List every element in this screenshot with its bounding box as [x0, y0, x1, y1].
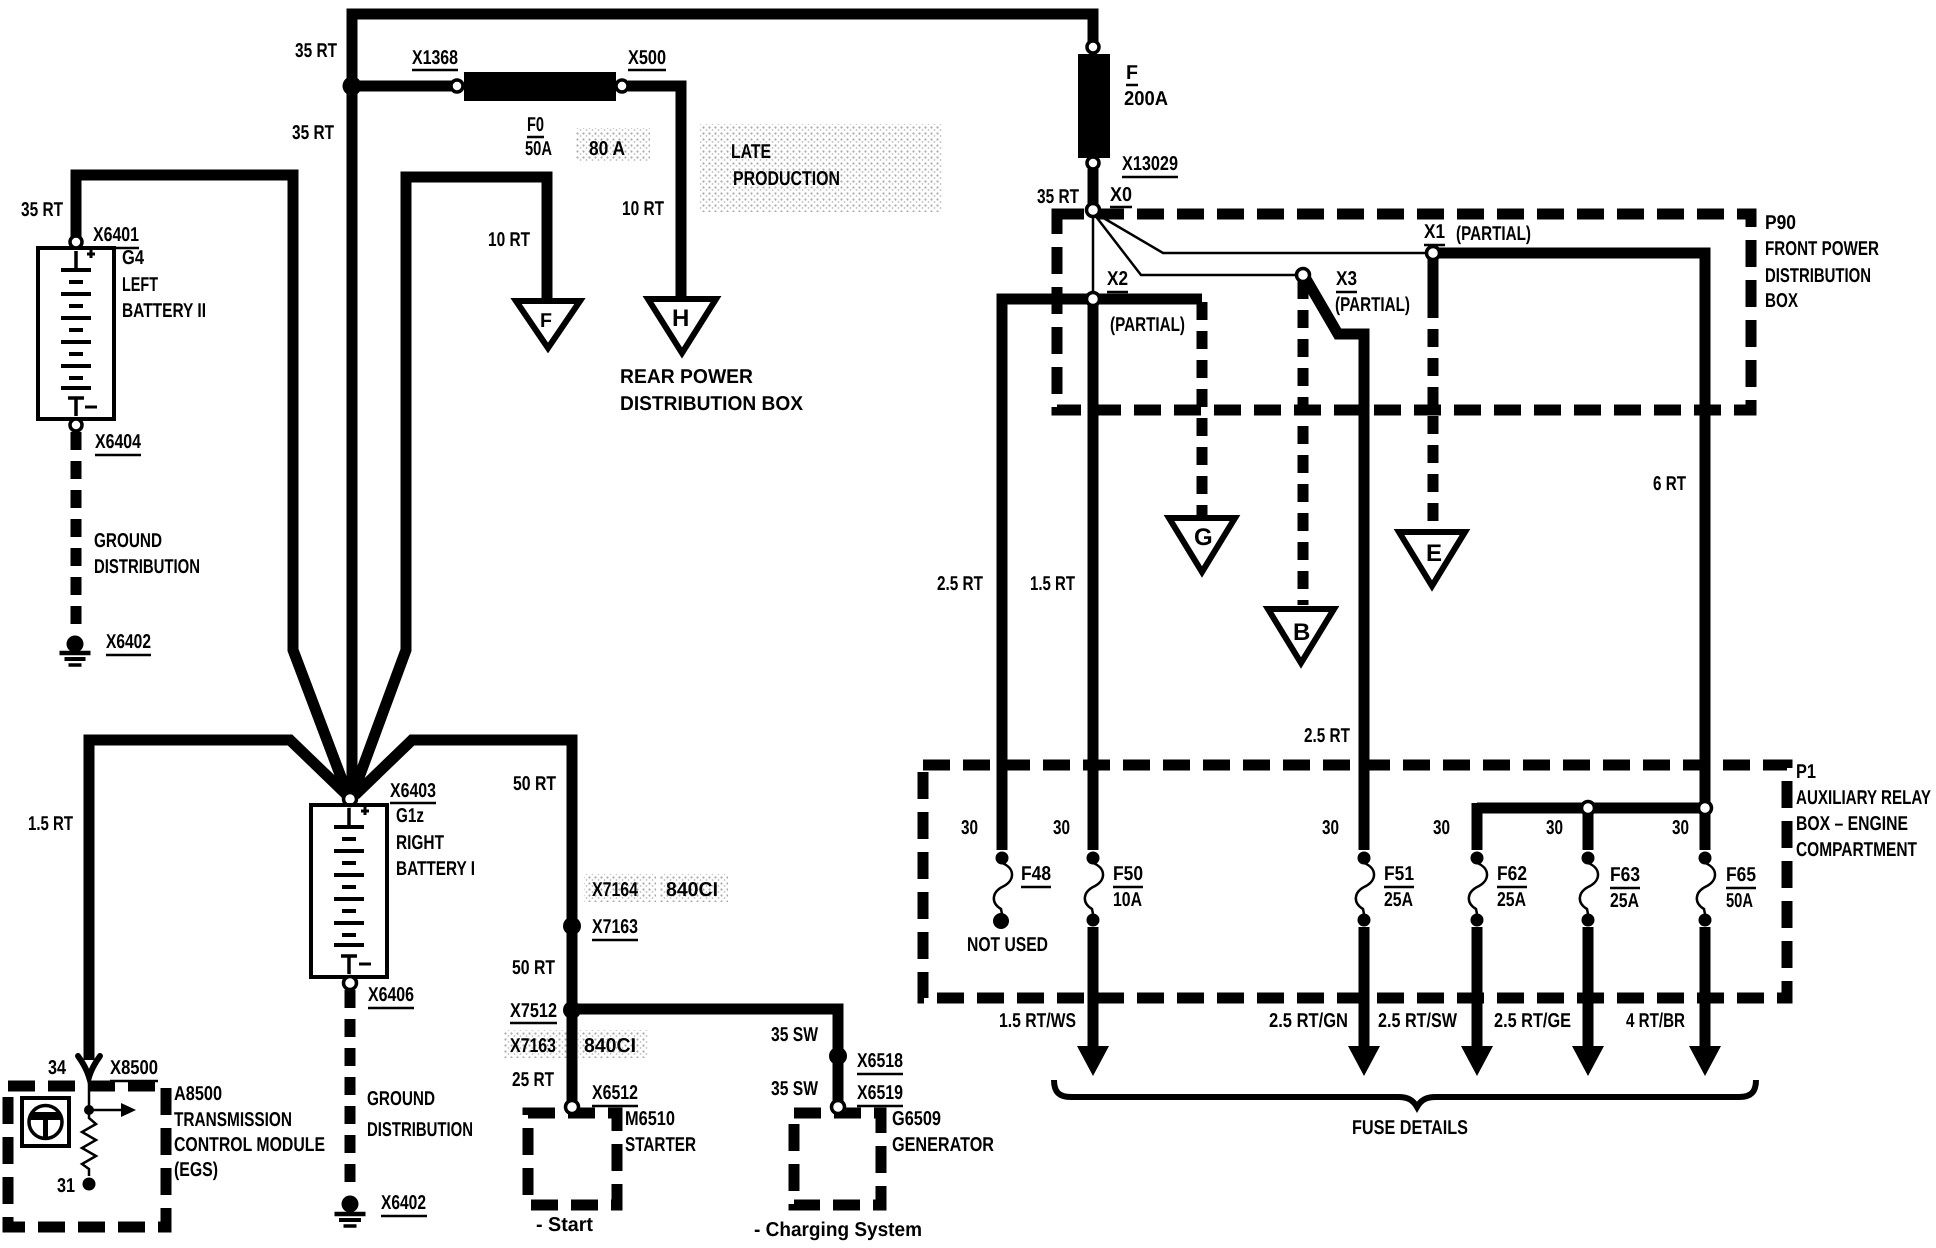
label X0	[1110, 184, 1132, 207]
svg-text:6 RT: 6 RT	[1653, 473, 1686, 495]
svg-text:(PARTIAL): (PARTIAL)	[1456, 223, 1531, 245]
svg-text:2.5 RT/GE: 2.5 RT/GE	[1494, 1010, 1571, 1032]
svg-text:A8500: A8500	[174, 1083, 222, 1105]
svg-text:25A: 25A	[1610, 890, 1639, 912]
svg-text:TRANSMISSION: TRANSMISSION	[174, 1109, 292, 1131]
svg-text:LATE: LATE	[731, 141, 771, 163]
junction dot X6518	[829, 1047, 847, 1065]
svg-text:P90: P90	[1765, 212, 1796, 234]
svg-text:F0: F0	[527, 114, 544, 136]
svg-text:BATTERY I: BATTERY I	[396, 858, 475, 880]
label X500	[628, 47, 666, 70]
label X6406	[368, 984, 414, 1008]
label X3 (PARTIAL)	[1335, 268, 1410, 316]
svg-text:F51: F51	[1384, 863, 1414, 885]
svg-text:1.5 RT/WS: 1.5 RT/WS	[999, 1010, 1076, 1032]
svg-text:2.5 RT/SW: 2.5 RT/SW	[1378, 1010, 1457, 1032]
junction dot X7512	[563, 1001, 581, 1019]
svg-text:35 SW: 35 SW	[771, 1024, 818, 1046]
label X6404	[95, 431, 142, 455]
svg-text:X2: X2	[1107, 268, 1128, 290]
svg-text:25A: 25A	[1497, 889, 1526, 911]
wire X1 to 6RT down right side	[1438, 253, 1705, 850]
fuse F51 25A	[1348, 852, 1380, 1077]
svg-text:(EGS): (EGS)	[174, 1159, 218, 1181]
label X7163	[592, 916, 638, 940]
wire top rail / main 35 RT vertical into funnel	[352, 14, 1093, 793]
label F63 25A	[1610, 864, 1640, 912]
svg-text:31: 31	[57, 1175, 75, 1197]
node bus/6RT	[1699, 802, 1712, 815]
svg-text:30: 30	[1546, 817, 1563, 839]
label X6519	[857, 1082, 903, 1106]
svg-text:B: B	[1293, 619, 1310, 646]
svg-text:840CI: 840CI	[666, 879, 718, 901]
battery G4 LEFT BATTERY II	[38, 248, 114, 419]
svg-text:H: H	[672, 305, 689, 332]
svg-text:LEFT: LEFT	[122, 274, 158, 296]
arrow B	[1268, 609, 1334, 663]
svg-text:DISTRIBUTION BOX: DISTRIBUTION BOX	[620, 393, 804, 415]
dashed wire X3 to arrow B	[1298, 281, 1309, 605]
svg-text:DISTRIBUTION: DISTRIBUTION	[94, 556, 200, 578]
svg-text:1.5 RT: 1.5 RT	[1030, 573, 1075, 595]
fuse F62 25A	[1461, 852, 1493, 1077]
svg-text:GROUND: GROUND	[367, 1088, 435, 1110]
node X1	[1427, 247, 1440, 260]
wire EGS branch horizontal into funnel	[89, 740, 347, 1060]
fuse F63 25A	[1572, 852, 1604, 1077]
label X6401	[93, 224, 139, 248]
svg-text:X1: X1	[1424, 221, 1445, 243]
svg-text:34: 34	[48, 1057, 67, 1079]
svg-text:25A: 25A	[1384, 889, 1413, 911]
ground distribution wire (battery II)	[71, 432, 82, 633]
svg-text:CONTROL MODULE: CONTROL MODULE	[174, 1134, 325, 1156]
svg-text:FUSE DETAILS: FUSE DETAILS	[1352, 1117, 1468, 1139]
svg-text:X13029: X13029	[1122, 153, 1178, 175]
svg-text:X6406: X6406	[368, 984, 414, 1006]
bus wire in P1	[1477, 803, 1705, 814]
svg-text:10 RT: 10 RT	[488, 229, 530, 251]
svg-text:X6401: X6401	[93, 224, 139, 246]
svg-text:COMPARTMENT: COMPARTMENT	[1796, 839, 1917, 861]
svg-text:P1: P1	[1796, 761, 1816, 783]
svg-text:F63: F63	[1610, 864, 1640, 886]
svg-text:80 A: 80 A	[589, 138, 625, 160]
ground X6402 (battery II)	[60, 636, 91, 666]
wire bus to F63	[1583, 808, 1594, 850]
svg-text:X7164: X7164	[592, 879, 639, 901]
EGS module dashed box A8500	[8, 1086, 166, 1227]
svg-text:50 RT: 50 RT	[512, 957, 555, 979]
wire F-arrow branch	[354, 177, 547, 791]
node X6406	[344, 977, 357, 990]
svg-text:30: 30	[1433, 817, 1450, 839]
label X1368	[412, 47, 458, 70]
P1 auxiliary relay box	[923, 765, 1787, 998]
fuse F50 10A	[1077, 852, 1109, 1077]
svg-text:35 RT: 35 RT	[1037, 186, 1079, 208]
svg-text:X6512: X6512	[592, 1082, 638, 1104]
thin line X0 to X1	[1095, 213, 1428, 253]
svg-text:10A: 10A	[1113, 889, 1142, 911]
battery G1z RIGHT BATTERY I	[311, 805, 387, 977]
svg-text:35 RT: 35 RT	[21, 199, 63, 221]
svg-text:STARTER: STARTER	[625, 1134, 696, 1156]
label X2 (PARTIAL)	[1107, 268, 1185, 336]
fuse F 200A	[1078, 41, 1110, 169]
node X0	[1087, 204, 1100, 217]
arrow to right inside EGS	[89, 1109, 121, 1112]
svg-text:GENERATOR: GENERATOR	[892, 1134, 994, 1156]
svg-text:F65: F65	[1726, 864, 1756, 886]
dashed wire to arrow G	[1197, 302, 1208, 515]
svg-text:RIGHT: RIGHT	[396, 832, 444, 854]
arrow F	[516, 301, 580, 348]
wire bus to F62	[1472, 803, 1483, 850]
svg-text:X3: X3	[1336, 268, 1357, 290]
stipple patch LATE PRODUCTION	[700, 124, 942, 212]
node X2	[1087, 293, 1100, 306]
label X6518	[857, 1050, 903, 1074]
svg-text:4 RT/BR: 4 RT/BR	[1626, 1010, 1685, 1032]
svg-text:50 RT: 50 RT	[513, 773, 556, 795]
svg-text:1.5 RT: 1.5 RT	[28, 813, 73, 835]
pin 31 blob	[83, 1178, 96, 1191]
svg-text:BOX: BOX	[1765, 290, 1798, 312]
svg-text:REAR POWER: REAR POWER	[620, 366, 754, 388]
junction dot X7163	[563, 917, 581, 935]
wire battery II positive branch	[76, 175, 347, 793]
stipple patch X7164 840CI	[584, 874, 656, 902]
svg-text:DISTRIBUTION: DISTRIBUTION	[367, 1119, 473, 1141]
label X1 (PARTIAL)	[1424, 221, 1531, 245]
starter dashed box M6510	[528, 1113, 617, 1205]
wire pin 34 into EGS	[88, 1074, 91, 1110]
label X7512	[510, 1000, 557, 1023]
svg-text:X6519: X6519	[857, 1082, 903, 1104]
ground distribution wire (battery I)	[345, 990, 356, 1193]
thin line X0 to X2	[1092, 214, 1095, 294]
node X6401	[70, 236, 82, 248]
wire X7512 to generator	[572, 1009, 838, 1102]
node X6403	[344, 793, 357, 806]
svg-text:X6402: X6402	[381, 1192, 426, 1214]
svg-text:X6402: X6402	[106, 631, 151, 653]
ground X6402 (battery I)	[335, 1196, 366, 1227]
svg-text:X7512: X7512	[510, 1000, 557, 1022]
label F62 25A	[1497, 863, 1527, 911]
svg-text:G1z: G1z	[396, 805, 424, 827]
label X8500	[110, 1057, 158, 1081]
resistor inside EGS	[82, 1110, 96, 1176]
svg-text:X7163: X7163	[510, 1035, 556, 1057]
svg-text:X6403: X6403	[390, 780, 436, 802]
label F48	[1021, 863, 1051, 887]
node X6519	[832, 1101, 845, 1114]
svg-text:X500: X500	[628, 47, 666, 69]
generator dashed box G6509	[794, 1113, 881, 1205]
stipple patch 80A	[576, 128, 650, 161]
svg-text:840CI: 840CI	[584, 1035, 636, 1057]
node X6512	[566, 1101, 579, 1114]
svg-text:X6404: X6404	[95, 431, 142, 453]
svg-text:F62: F62	[1497, 863, 1527, 885]
arrow E	[1399, 532, 1465, 586]
brace fuse details	[1054, 1080, 1756, 1107]
svg-text:F50: F50	[1113, 863, 1143, 885]
wire X500 to arrow H	[628, 86, 681, 298]
wire X3 solid 2.5RT to F51	[1306, 279, 1364, 850]
wire junction to fuse F0	[352, 81, 452, 92]
svg-text:BOX – ENGINE: BOX – ENGINE	[1796, 813, 1908, 835]
label F65 50A	[1726, 864, 1756, 912]
svg-text:50A: 50A	[525, 138, 552, 160]
wire X2 horizontal + left 2.5RT drop to F48	[1002, 299, 1202, 850]
label X13029	[1122, 153, 1178, 177]
svg-text:- Start: - Start	[536, 1214, 593, 1236]
svg-text:2.5 RT/GN: 2.5 RT/GN	[1269, 1010, 1348, 1032]
svg-text:10 RT: 10 RT	[622, 198, 664, 220]
thin line X0 to X3	[1094, 214, 1298, 275]
connector symbol 34 / X8500	[78, 1056, 100, 1077]
junction dot at top of 35 RT branch	[343, 77, 362, 96]
svg-text:200A: 200A	[1124, 88, 1168, 110]
label F50 10A	[1113, 863, 1143, 911]
stipple patch X7163 840CI	[504, 1030, 572, 1058]
svg-text:X6518: X6518	[857, 1050, 903, 1072]
svg-text:(PARTIAL): (PARTIAL)	[1110, 314, 1185, 336]
svg-text:M6510: M6510	[625, 1108, 675, 1130]
label F0 50A	[525, 114, 552, 160]
svg-text:50A: 50A	[1726, 890, 1753, 912]
arrow H (rear power distribution box)	[648, 299, 716, 353]
P90 front power distribution box	[1057, 214, 1751, 410]
svg-text:G6509: G6509	[892, 1108, 941, 1130]
svg-text:30: 30	[1053, 817, 1070, 839]
svg-text:E: E	[1426, 540, 1442, 567]
svg-text:2.5 RT: 2.5 RT	[937, 573, 983, 595]
svg-text:NOT USED: NOT USED	[967, 934, 1048, 956]
label X6512	[592, 1082, 638, 1106]
svg-text:G: G	[1194, 524, 1213, 551]
label X6402 (center)	[381, 1192, 427, 1216]
svg-text:(PARTIAL): (PARTIAL)	[1335, 294, 1410, 316]
svg-text:- Charging System: - Charging System	[754, 1219, 922, 1241]
wire 35 RT fuse to X0	[1088, 169, 1099, 205]
fuse F65 50A	[1689, 852, 1721, 1077]
svg-text:GROUND: GROUND	[94, 530, 162, 552]
svg-text:30: 30	[1672, 817, 1689, 839]
svg-text:AUXILIARY RELAY: AUXILIARY RELAY	[1796, 787, 1931, 809]
svg-text:FRONT POWER: FRONT POWER	[1765, 238, 1879, 260]
svg-text:X8500: X8500	[110, 1057, 158, 1079]
wire 50 RT branch horizontal into funnel	[355, 740, 572, 1102]
junction dot in EGS	[84, 1105, 94, 1115]
label F 200A	[1124, 62, 1168, 110]
svg-text:X0: X0	[1110, 184, 1132, 206]
svg-text:BATTERY II: BATTERY II	[122, 300, 206, 322]
svg-text:30: 30	[1322, 817, 1339, 839]
fuse F0 50A	[451, 72, 628, 101]
svg-text:35 SW: 35 SW	[771, 1078, 818, 1100]
fuse F48 (not used)	[993, 852, 1012, 930]
svg-text:G4: G4	[122, 247, 145, 269]
svg-text:DISTRIBUTION: DISTRIBUTION	[1765, 265, 1871, 287]
node X6404	[70, 419, 82, 431]
svg-text:35 RT: 35 RT	[292, 122, 334, 144]
svg-text:PRODUCTION: PRODUCTION	[733, 168, 840, 190]
svg-text:30: 30	[961, 817, 978, 839]
svg-text:25 RT: 25 RT	[512, 1069, 554, 1091]
dashed wire X1 to arrow E	[1428, 259, 1439, 300]
arrow G	[1169, 518, 1235, 572]
node X3	[1297, 269, 1310, 282]
svg-text:X1368: X1368	[412, 47, 458, 69]
label X6403	[390, 780, 436, 803]
svg-text:X7163: X7163	[592, 916, 638, 938]
svg-text:F: F	[1126, 62, 1138, 84]
svg-text:35 RT: 35 RT	[295, 40, 337, 62]
wire 1.5RT below X2 to F50	[1088, 299, 1099, 850]
label X6402 (left)	[106, 631, 151, 655]
svg-text:2.5 RT: 2.5 RT	[1304, 725, 1350, 747]
svg-text:F: F	[540, 310, 552, 332]
node bus/F63	[1582, 802, 1595, 815]
steering wheel icon	[22, 1098, 69, 1146]
label F51 25A	[1384, 863, 1414, 911]
svg-text:F48: F48	[1021, 863, 1051, 885]
